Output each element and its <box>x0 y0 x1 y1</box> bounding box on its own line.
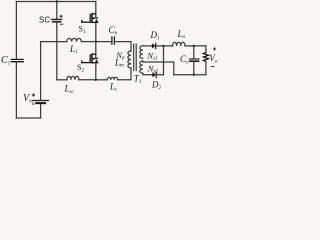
wire S1 drain lead <box>95 2 97 14</box>
label Vo plus <box>213 47 216 50</box>
wire battery bottom lead <box>40 103 42 118</box>
inductor Lr <box>107 77 117 80</box>
wire battery top lead up to node B <box>40 42 42 100</box>
inductor Lsc <box>67 76 79 80</box>
wire S2 source to Lsc node <box>95 63 97 80</box>
wire left branch upper (to C1) <box>15 2 17 60</box>
transistor S2 (MOSFET with body diode) <box>82 54 98 63</box>
wire Lr right segment + primary bottom lead <box>118 68 131 80</box>
node switch junction dot <box>95 40 97 42</box>
transistor S1 (MOSFET with body diode) <box>82 14 98 23</box>
svg-text:Lsc: Lsc <box>64 84 75 95</box>
wire load top lead <box>205 46 207 52</box>
capacitor Cb <box>112 37 115 44</box>
wire Lo to output corner <box>185 45 206 47</box>
wire secondary bottom lead to D2 <box>143 73 153 75</box>
wire Lsc left segment <box>57 79 67 81</box>
wire top rail <box>16 1 95 3</box>
wire D2 cathode to node A vertical <box>156 74 163 76</box>
transformer T1 secondary winding Ns1 <box>140 46 143 59</box>
label Vo minus <box>211 66 214 68</box>
wire node A vertical (crosses center tap, joins D2 cathode) <box>163 46 165 75</box>
svg-text:D1: D1 <box>150 30 161 41</box>
diode D2 <box>152 72 156 77</box>
wire S1 source to switch node <box>95 22 97 41</box>
label Vin plus <box>32 93 35 96</box>
node S2 source junction dot <box>95 79 97 81</box>
wire Lsc right segment to S2 source node <box>79 79 96 81</box>
wire SC bottom lead (crosses L1 wire, no connection) <box>56 22 58 79</box>
node A junction dot <box>162 45 164 47</box>
capacitor C1 <box>11 59 23 61</box>
svg-text:D2: D2 <box>151 80 162 91</box>
svg-text:C1: C1 <box>1 55 11 67</box>
transformer T1 primary winding Np/Lm <box>128 51 131 68</box>
wire center tap run <box>143 62 174 75</box>
wire bottom rail <box>16 117 40 119</box>
svg-text:S2: S2 <box>77 63 84 73</box>
svg-text:T1: T1 <box>134 74 142 85</box>
diode D1 <box>152 43 156 48</box>
inductor Lo <box>173 42 186 46</box>
label SC minus <box>60 23 63 25</box>
wire left branch lower (C1 to bottom rail) <box>15 62 17 118</box>
wire Lr left segment <box>96 79 108 81</box>
svg-text:S1: S1 <box>79 25 86 35</box>
wire S2 drain lead <box>95 42 97 55</box>
svg-text:Vo: Vo <box>209 53 218 64</box>
wire SC top lead <box>56 2 58 19</box>
battery Vin <box>33 101 48 104</box>
transformer T1 secondary winding Ns2 <box>140 61 143 73</box>
wire node A to Lo <box>164 45 173 47</box>
transformer T1 core <box>133 44 135 71</box>
svg-text:Co: Co <box>180 54 189 65</box>
wire load bottom lead <box>205 62 207 75</box>
wire output bottom rail <box>174 74 206 76</box>
wire Cb left segment <box>96 41 112 43</box>
node Co bottom junction dot <box>193 74 195 76</box>
node SC tap junction dot on top rail <box>56 0 58 2</box>
node Co top junction dot <box>193 45 195 47</box>
label SC plus <box>59 15 62 18</box>
wire L1 right segment to switch node <box>81 41 95 43</box>
svg-text:Cb: Cb <box>109 25 118 36</box>
svg-text:L1: L1 <box>69 44 78 55</box>
wire Co bottom lead <box>193 62 195 75</box>
wire Co top lead <box>193 46 195 59</box>
svg-text:Lr: Lr <box>109 82 118 93</box>
capacitor Co <box>189 59 199 61</box>
supercapacitor SC <box>52 19 62 21</box>
wire Cb right segment + primary top lead <box>115 42 131 51</box>
wire L1 left segment <box>41 41 67 43</box>
svg-text:Ns1: Ns1 <box>146 50 158 61</box>
svg-text:SC: SC <box>39 16 50 25</box>
wire secondary top lead to D1 <box>143 45 152 47</box>
inductor L1 <box>67 38 82 41</box>
svg-text:Ns2: Ns2 <box>147 63 159 74</box>
label Vin minus <box>32 103 35 105</box>
resistor load R <box>203 52 208 61</box>
wire D1 cathode to node A <box>156 45 164 47</box>
svg-text:Lo: Lo <box>177 29 186 40</box>
